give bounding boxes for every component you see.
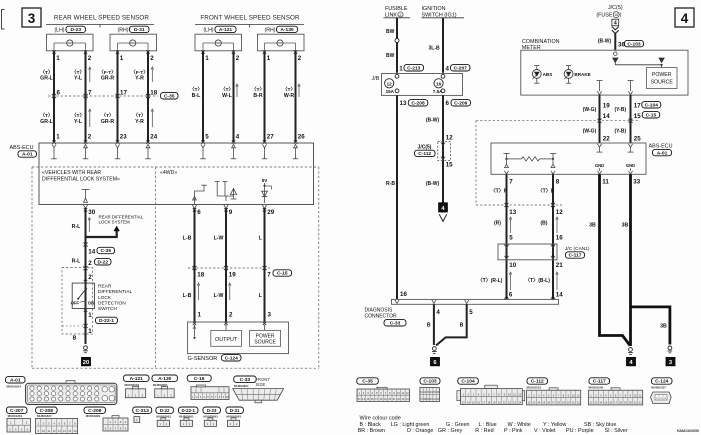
svg-text:33: 33 xyxy=(633,178,640,185)
svg-text:15: 15 xyxy=(634,113,641,120)
svg-text:〈T〉B: 〈T〉B xyxy=(538,189,555,195)
meter output terminals xyxy=(597,81,634,95)
ABS-ECU box right page xyxy=(491,143,673,174)
svg-text:C-213: C-213 xyxy=(407,66,421,72)
svg-text:GR-R: GR-R xyxy=(101,119,115,125)
connector table C-35 xyxy=(357,378,410,402)
svg-text:(B-W): (B-W) xyxy=(426,181,440,187)
svg-text:A-130: A-130 xyxy=(158,376,172,382)
diagnosis connector terminals xyxy=(395,296,555,304)
svg-text:12: 12 xyxy=(446,134,453,141)
svg-text:C-103: C-103 xyxy=(423,379,437,385)
svg-text:29: 29 xyxy=(267,209,274,216)
G-sensor POWER SOURCE block xyxy=(250,330,281,346)
sensor A-130 pin numbers 1 2 xyxy=(267,55,302,62)
svg-text:IGNITION: IGNITION xyxy=(422,6,446,12)
svg-text:LOCK SYSTEM: LOCK SYSTEM xyxy=(99,220,131,225)
ground ECU secondary xyxy=(668,346,672,350)
svg-text:11: 11 xyxy=(602,178,609,185)
meter connector C-104 pins 19 17 xyxy=(603,102,661,110)
wire front LH sensor pin2 W-L xyxy=(233,51,235,143)
svg-text:MU801261: MU801261 xyxy=(8,414,23,418)
wheel speed sensor A-121 connector label xyxy=(203,26,236,33)
svg-text:25: 25 xyxy=(634,135,641,142)
ground number 4 xyxy=(627,357,636,365)
svg-text:DIAGNOSIS: DIAGNOSIS xyxy=(365,307,393,313)
DIAGNOSIS CONNECTOR C-33 box xyxy=(365,299,559,326)
label REAR DIFFERENTIAL LOCK DETECTION SWITCH xyxy=(98,284,132,312)
connector table D-31 xyxy=(226,407,244,426)
svg-text:13: 13 xyxy=(400,100,407,107)
svg-text:1: 1 xyxy=(120,55,124,62)
arrows beside CAN wires lower xyxy=(509,272,558,290)
pins 13 12 inline xyxy=(509,209,563,216)
svg-text:C-15: C-15 xyxy=(646,113,657,119)
svg-text:W-R: W-R xyxy=(284,93,295,99)
pin 6 below ECU xyxy=(193,208,202,216)
svg-text:10: 10 xyxy=(509,262,516,269)
svg-text:〈T〉R: 〈T〉R xyxy=(491,189,508,195)
heading FRONT WHEEL SPEED SENSOR xyxy=(195,15,304,28)
svg-text:1: 1 xyxy=(56,133,60,140)
svg-text:MU803901: MU803901 xyxy=(234,384,249,388)
ECU pins 7 8 11 33 xyxy=(509,178,640,185)
svg-text:Wire colour code: Wire colour code xyxy=(360,415,401,421)
svg-text:C-213: C-213 xyxy=(136,408,150,414)
svg-text:3B: 3B xyxy=(622,222,629,228)
pin 9 below ECU xyxy=(224,208,233,216)
ECU terminals pins 22 25 xyxy=(597,144,634,152)
svg-text:1: 1 xyxy=(267,55,271,62)
svg-text:DIFFERENTIAL: DIFFERENTIAL xyxy=(98,289,132,295)
svg-text:CONNECTOR: CONNECTOR xyxy=(365,314,398,320)
connector table A-130 xyxy=(152,375,178,398)
arrows beside G-sensor wires xyxy=(197,283,231,300)
connector C-209 pin 6 xyxy=(446,100,471,107)
ECU input terminals xyxy=(51,144,298,158)
svg-text:L-B: L-B xyxy=(183,235,192,241)
svg-text:P : Pink: P : Pink xyxy=(504,428,523,434)
warning lamp BRAKE xyxy=(564,66,591,84)
connector C-15 pins 14 15 right page xyxy=(603,112,660,120)
G-sensor OUTPUT block xyxy=(211,330,242,346)
page number 4 box xyxy=(675,8,694,27)
ground number 20 xyxy=(82,357,91,365)
svg-text:HAM1303050: HAM1303050 xyxy=(677,429,699,433)
connector table D-22-1 xyxy=(179,407,199,426)
svg-text:C-33: C-33 xyxy=(240,377,251,383)
wire front RH sensor pin2 W-R xyxy=(295,51,297,143)
svg-text:21: 21 xyxy=(556,262,563,269)
warning lamp ABS xyxy=(532,66,552,84)
svg-text:BW: BW xyxy=(386,53,395,59)
G-sensor wire labels upper xyxy=(183,235,263,241)
svg-text:C-117: C-117 xyxy=(593,379,606,385)
svg-text:R-L: R-L xyxy=(72,259,81,265)
svg-text:2: 2 xyxy=(298,55,302,62)
svg-text:L-W: L-W xyxy=(214,293,224,299)
svg-text:2: 2 xyxy=(88,133,92,140)
svg-text:D-31: D-31 xyxy=(230,408,240,413)
svg-text:SI : Silver: SI : Silver xyxy=(605,428,628,434)
svg-text:18: 18 xyxy=(150,89,157,96)
wire 3L-B ignition switch to J/B xyxy=(442,18,444,73)
svg-text:27: 27 xyxy=(267,133,274,140)
label J/C(5) FUSE 15 top xyxy=(596,5,623,18)
connector table C-209 xyxy=(84,407,128,431)
svg-text:G-SENSOR: G-SENSOR xyxy=(188,356,218,362)
joint connector J/C CAN1 C-117 xyxy=(498,244,590,260)
joint connector J/C(5) C-112 xyxy=(415,142,451,161)
svg-text:19: 19 xyxy=(229,271,236,278)
connector table C-15 xyxy=(187,375,229,400)
wire R-B to diagnosis connector xyxy=(396,95,398,299)
svg-text:MU801515: MU801515 xyxy=(527,386,542,390)
sensor D-31 pin numbers 1 2 xyxy=(120,55,155,62)
ground number 6 xyxy=(431,357,440,365)
svg-text:6: 6 xyxy=(197,209,201,216)
svg-text:C-117: C-117 xyxy=(568,253,581,259)
svg-text:C-209: C-209 xyxy=(454,101,468,107)
wheel speed sensor D-23 body xyxy=(47,34,94,51)
svg-text:30: 30 xyxy=(88,209,95,216)
connector table D-23 xyxy=(203,407,221,426)
svg-text:A-130: A-130 xyxy=(280,27,294,33)
inline connector C-35 pin 14 on switch wire xyxy=(84,243,115,256)
connector table C-33 front side xyxy=(233,376,284,403)
svg-text:3: 3 xyxy=(268,312,272,319)
svg-text:D-22-1: D-22-1 xyxy=(99,318,114,324)
svg-text:ABS-ECU: ABS-ECU xyxy=(649,144,673,150)
COMBINATION METER box xyxy=(521,39,688,95)
svg-text:6: 6 xyxy=(57,89,61,96)
svg-text:D-22: D-22 xyxy=(160,408,170,413)
svg-text:3L-B: 3L-B xyxy=(429,45,441,51)
ECU internal circuit pin 6 resistor-jog xyxy=(192,185,206,208)
direction arrows beside rear wires xyxy=(89,67,154,82)
wire rear LH sensor pin1 GR-L xyxy=(53,51,55,143)
dashed crossing C-15 right page xyxy=(476,119,640,123)
svg-text:PU : Purple: PU : Purple xyxy=(566,428,594,434)
svg-text:C-208: C-208 xyxy=(411,101,425,107)
svg-text:24: 24 xyxy=(150,133,157,140)
svg-text:J/C(5): J/C(5) xyxy=(608,5,623,11)
wire B diagnosis pin 4 to ground xyxy=(433,304,435,345)
G-sensor wire labels lower xyxy=(183,293,263,299)
svg-text:R-L: R-L xyxy=(72,224,81,230)
svg-text:23: 23 xyxy=(120,133,127,140)
svg-text:17: 17 xyxy=(120,89,127,96)
page reference 4 with jump arrows xyxy=(612,19,619,33)
wire CAN low to diagnosis xyxy=(552,174,554,299)
thick ground wire ECU pin 33 xyxy=(629,174,632,346)
page number 3 box xyxy=(22,8,41,27)
left margin corner mark xyxy=(2,10,5,30)
svg-text:4: 4 xyxy=(614,20,617,26)
svg-text:REAR WHEEL SPEED SENSOR: REAR WHEEL SPEED SENSOR xyxy=(54,15,149,22)
svg-text:ON: ON xyxy=(88,300,94,305)
svg-text:1: 1 xyxy=(88,312,92,319)
svg-text:7: 7 xyxy=(267,271,271,278)
connector table C-207 xyxy=(6,407,30,432)
wire B-W fuse to combination meter xyxy=(614,33,616,50)
connector table C-112 xyxy=(527,378,581,405)
svg-text:MU801545: MU801545 xyxy=(589,386,604,390)
direction arrows beside front wires xyxy=(236,84,301,97)
wire labels R B in parens xyxy=(494,221,548,227)
connector C-15 inline crossing left page xyxy=(188,266,292,278)
FUSIBLE LINK 2 source xyxy=(384,6,411,18)
svg-text:7: 7 xyxy=(509,178,513,185)
svg-text:2: 2 xyxy=(88,274,92,281)
wheel speed sensor D-31 body xyxy=(110,34,157,51)
arrow beside pin 30 wire xyxy=(88,219,90,232)
wire front LH sensor pin1 B-L xyxy=(202,51,204,143)
svg-text:(B-W): (B-W) xyxy=(426,118,440,124)
ECU pins 22 25 xyxy=(603,135,641,142)
svg-text:C-104: C-104 xyxy=(645,103,659,109)
wire Y-B meter pin17 to ECU pin25 xyxy=(630,95,632,143)
connector table A-121 xyxy=(124,375,150,398)
svg-text:GR-R: GR-R xyxy=(101,76,115,82)
wire labels B xyxy=(427,323,464,329)
inline connector D-22 pin 2 on switch wire xyxy=(84,259,112,271)
pins 10 21 below J/C CAN1 xyxy=(509,262,563,269)
svg-text:(FUSE: (FUSE xyxy=(596,13,613,19)
front sensor wire labels xyxy=(190,87,296,99)
pins 5 16 into J/C CAN1 xyxy=(509,234,563,241)
svg-text:2: 2 xyxy=(88,260,92,267)
svg-text:GR : Grey: GR : Grey xyxy=(438,428,463,434)
svg-text:Y-R: Y-R xyxy=(135,119,144,125)
connector C-103 pin 36 xyxy=(618,40,644,48)
svg-text:«4WD»: «4WD» xyxy=(160,170,177,176)
wire labels T R-L and T B-L xyxy=(478,278,551,284)
svg-text:1: 1 xyxy=(399,66,403,73)
svg-text:A-121: A-121 xyxy=(219,27,233,33)
svg-text:8: 8 xyxy=(556,178,560,185)
dashed compartment vehicles with rear differential lock xyxy=(32,167,319,368)
svg-text:〈T〉(R-L): 〈T〉(R-L) xyxy=(478,278,503,284)
svg-text:J/C (CAN1): J/C (CAN1) xyxy=(565,246,590,252)
ground diagnosis connector xyxy=(432,347,436,351)
wire rear LH sensor pin2 Y-L xyxy=(85,51,87,143)
svg-text:4: 4 xyxy=(436,309,440,316)
svg-text:J/B: J/B xyxy=(372,76,380,82)
svg-text:DIFFERENTIAL LOCK SYSTEM»: DIFFERENTIAL LOCK SYSTEM» xyxy=(42,177,120,183)
svg-text:1: 1 xyxy=(198,312,202,319)
svg-text:MU801829: MU801829 xyxy=(86,414,101,418)
ECU internal circuit pin 9 comparator xyxy=(215,182,237,209)
svg-text:9: 9 xyxy=(229,209,233,216)
svg-text:B: B xyxy=(427,323,431,329)
svg-text:C-15: C-15 xyxy=(194,376,205,382)
svg-text:16: 16 xyxy=(400,291,407,298)
svg-text:GR-L: GR-L xyxy=(40,119,54,125)
svg-text:C-124: C-124 xyxy=(225,356,239,362)
svg-text:C-104: C-104 xyxy=(461,379,475,385)
connector C-213 pin 1 xyxy=(399,65,423,73)
svg-text:MU801827: MU801827 xyxy=(37,414,52,418)
svg-text:C-35: C-35 xyxy=(100,248,111,254)
svg-text:R-B: R-B xyxy=(386,181,395,187)
svg-text:2: 2 xyxy=(88,55,92,62)
svg-text:3B: 3B xyxy=(589,222,596,228)
svg-text:5: 5 xyxy=(469,309,473,316)
svg-text:BW: BW xyxy=(386,29,395,35)
svg-text:2: 2 xyxy=(229,312,233,319)
diagnosis pins 6 14 xyxy=(509,292,563,299)
svg-text:12: 12 xyxy=(387,81,393,86)
dashed enclosure ECU right page xyxy=(476,121,563,207)
svg-text:C-208: C-208 xyxy=(40,408,54,414)
svg-text:13: 13 xyxy=(509,209,516,216)
svg-text:3: 3 xyxy=(28,11,36,26)
svg-text:14: 14 xyxy=(88,249,95,256)
wire labels T R and T B xyxy=(491,189,555,195)
svg-text:ABS-ECU: ABS-ECU xyxy=(10,145,34,151)
wire BW fusible link to J/B xyxy=(396,18,398,73)
svg-text:1: 1 xyxy=(205,55,209,62)
svg-text:SIDE: SIDE xyxy=(256,382,266,387)
junction marks at ECU entry xyxy=(52,141,297,144)
svg-text:7: 7 xyxy=(88,89,92,96)
ABS-ECU box left page xyxy=(39,143,314,205)
svg-text:(W-G): (W-G) xyxy=(583,107,597,113)
svg-text:(RH): (RH) xyxy=(118,27,129,33)
label REAR DIFFERENTIAL LOCK SYSTEM xyxy=(99,214,144,224)
svg-text:〈T〉(B-L): 〈T〉(B-L) xyxy=(525,278,550,284)
meter internal supply rail xyxy=(613,52,665,68)
sensor A-121 terminal junctions xyxy=(201,50,235,53)
svg-text:POWER: POWER xyxy=(652,72,672,78)
svg-text:26: 26 xyxy=(298,133,305,140)
svg-text:22: 22 xyxy=(603,135,610,142)
ground ECU main xyxy=(629,348,633,352)
pin 29 below ECU xyxy=(263,208,275,216)
wire front RH sensor pin1 B-R xyxy=(264,51,266,143)
svg-text:5V: 5V xyxy=(262,178,269,183)
label VEHICLES WITH REAR DIFFERENTIAL LOCK SYSTEM xyxy=(42,170,120,182)
svg-text:REAR DIFFERENTIAL: REAR DIFFERENTIAL xyxy=(99,214,144,219)
svg-text:6: 6 xyxy=(509,292,513,299)
svg-text:C-112: C-112 xyxy=(531,379,544,385)
svg-text:4: 4 xyxy=(681,11,689,26)
thick ground wire ECU pin 11 xyxy=(600,174,631,345)
wheel speed sensor A-130 connector label xyxy=(265,26,298,33)
svg-text:20: 20 xyxy=(83,360,89,366)
rear sensor wire labels lower xyxy=(40,113,146,125)
svg-text:B: B xyxy=(73,336,77,342)
ECU internal GND labels xyxy=(595,163,635,174)
svg-text:4: 4 xyxy=(446,66,450,73)
wire rear RH sensor pin1 GR-R xyxy=(117,51,119,143)
svg-text:GR-L: GR-L xyxy=(40,76,54,82)
connector table C-117 xyxy=(589,378,643,405)
svg-text:O : Orange: O : Orange xyxy=(407,428,434,434)
wheel speed sensor A-121 body xyxy=(195,34,242,51)
wire L-B G-sensor pin1 xyxy=(194,208,196,322)
svg-text:L-B: L-B xyxy=(183,293,192,299)
svg-text:5: 5 xyxy=(205,133,209,140)
svg-text:ABS: ABS xyxy=(543,72,553,77)
svg-text:(Y-B): (Y-B) xyxy=(614,107,626,113)
svg-text:14: 14 xyxy=(603,113,610,120)
svg-text:15: 15 xyxy=(614,13,618,17)
svg-text:MU801814: MU801814 xyxy=(7,384,22,388)
branch arrow to rear differential lock system xyxy=(86,226,120,238)
heading REAR WHEEL SPEED SENSOR xyxy=(46,15,154,28)
wire R-L from pin 30 to detection switch xyxy=(85,208,87,344)
fuse 12 15A xyxy=(385,74,399,94)
svg-text:C-207: C-207 xyxy=(454,66,468,72)
connector C-207 pin 4 xyxy=(446,65,471,73)
thick ground branch to ground 3 xyxy=(631,307,670,345)
svg-text:FRONT WHEEL SPEED SENSOR: FRONT WHEEL SPEED SENSOR xyxy=(200,15,300,22)
svg-text:): ) xyxy=(620,13,622,19)
svg-text:B: B xyxy=(460,323,464,329)
wire rear RH sensor pin2 Y-R xyxy=(147,51,149,143)
svg-text:17: 17 xyxy=(634,102,641,109)
sensor A-130 terminal junctions xyxy=(263,50,297,53)
svg-text:METER: METER xyxy=(522,45,541,51)
svg-text:3B: 3B xyxy=(660,323,667,329)
svg-text:GND: GND xyxy=(595,163,604,168)
wire B diagnosis pin 5 to ground xyxy=(436,304,467,345)
junction block J/B xyxy=(372,74,463,96)
svg-text:SOURCE: SOURCE xyxy=(651,79,674,85)
G-SENSOR label C-124 xyxy=(188,355,242,363)
wire labels W-G Y-B lower xyxy=(583,129,627,135)
wire W-G meter pin19 to ECU pin22 xyxy=(599,95,601,143)
wire labels 3B xyxy=(589,222,667,329)
switch connector D-22-1 xyxy=(62,312,118,335)
svg-text:1: 1 xyxy=(136,418,138,422)
svg-text:7.5A: 7.5A xyxy=(433,89,443,94)
G-sensor pin numbers xyxy=(198,312,272,319)
svg-text:A-01: A-01 xyxy=(657,150,668,156)
svg-text:(LH): (LH) xyxy=(203,27,213,33)
connector table C-213 xyxy=(133,407,152,423)
svg-text:(R): (R) xyxy=(494,221,501,227)
svg-text:BR : Brown: BR : Brown xyxy=(358,428,385,434)
svg-text:14: 14 xyxy=(556,292,563,299)
svg-text:(B-W): (B-W) xyxy=(598,39,612,45)
svg-text:Y-L: Y-L xyxy=(74,119,83,125)
fuse 16 7.5A xyxy=(433,74,445,94)
svg-text:A-01: A-01 xyxy=(10,378,21,384)
svg-text:A-01: A-01 xyxy=(22,152,33,158)
svg-text:15: 15 xyxy=(446,162,453,169)
svg-text:2: 2 xyxy=(236,55,240,62)
fusible link connector circle xyxy=(395,39,399,43)
rear sensor wire labels upper xyxy=(40,70,148,82)
svg-text:GND: GND xyxy=(626,163,635,168)
svg-text:16: 16 xyxy=(436,81,442,86)
ABS-ECU name label A-01 xyxy=(10,145,37,158)
svg-text:4: 4 xyxy=(236,133,240,140)
ECU internal terminal pin 30 xyxy=(82,189,90,208)
ECU internal circuit pin 29 5V supply xyxy=(262,178,272,208)
svg-text:DETECTION: DETECTION xyxy=(98,300,126,306)
svg-text:(LH): (LH) xyxy=(54,27,64,33)
svg-text:C-35: C-35 xyxy=(164,94,175,100)
wire labels W-G Y-B upper xyxy=(583,107,627,113)
wire CAN high to diagnosis xyxy=(506,174,508,299)
svg-text:C-112: C-112 xyxy=(418,151,431,157)
ABS-ECU A-01 pin numbers top xyxy=(56,133,305,140)
svg-text:C-33: C-33 xyxy=(390,321,401,327)
